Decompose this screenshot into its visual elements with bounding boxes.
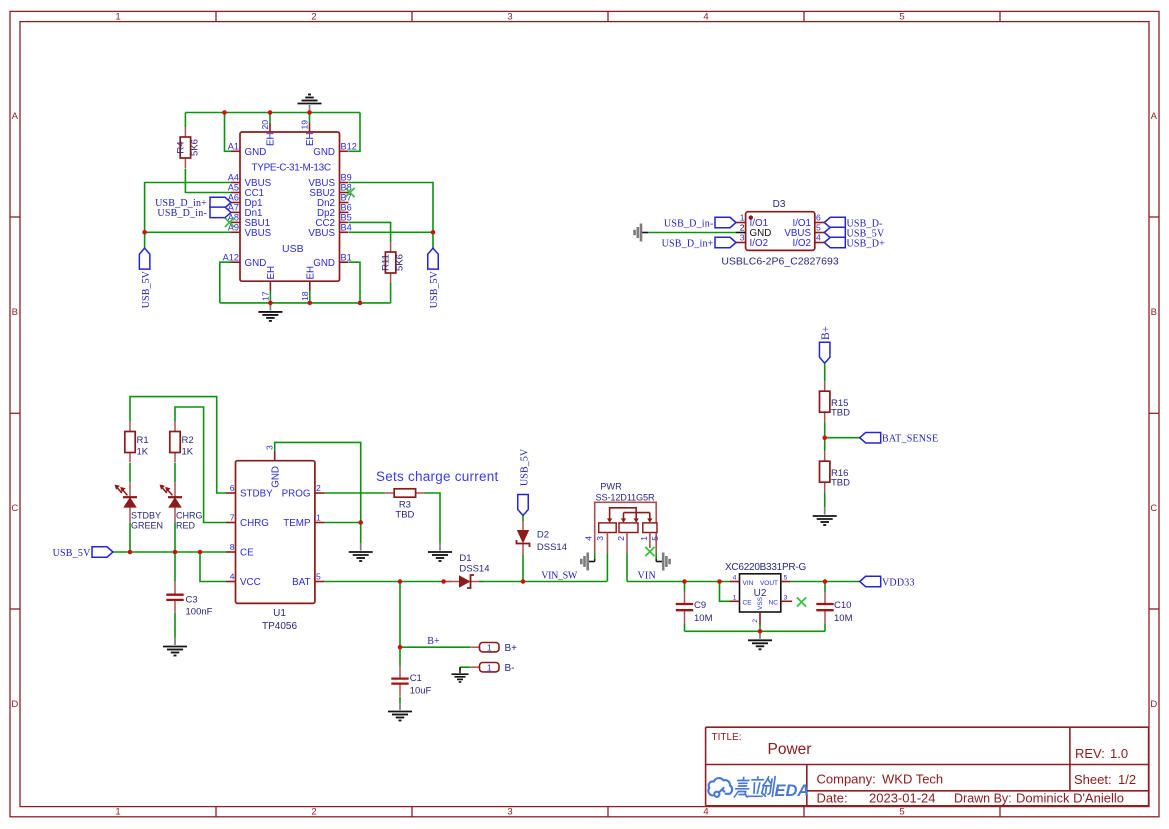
- svg-text:STDBY: STDBY: [131, 511, 161, 521]
- svg-text:10M: 10M: [694, 613, 713, 624]
- svg-text:USB_5V: USB_5V: [519, 448, 530, 486]
- svg-text:CHRG: CHRG: [176, 511, 203, 521]
- svg-text:3: 3: [265, 445, 275, 450]
- svg-text:GND: GND: [270, 466, 281, 488]
- svg-text:I/O2: I/O2: [792, 238, 811, 249]
- svg-text:5: 5: [784, 575, 788, 582]
- svg-text:B+: B+: [820, 326, 832, 340]
- svg-text:D: D: [11, 699, 18, 710]
- svg-text:TP4056: TP4056: [262, 621, 297, 632]
- svg-text:5: 5: [650, 536, 660, 541]
- svg-text:GND: GND: [313, 258, 335, 269]
- svg-text:B1: B1: [341, 252, 352, 262]
- svg-text:USB_D+: USB_D+: [847, 238, 886, 249]
- svg-text:6: 6: [230, 483, 235, 493]
- svg-text:C9: C9: [694, 600, 706, 611]
- svg-text:EH: EH: [305, 132, 316, 146]
- svg-text:2: 2: [616, 536, 626, 541]
- svg-text:C3: C3: [186, 595, 198, 606]
- svg-text:DSS14: DSS14: [459, 564, 489, 575]
- svg-text:C: C: [11, 503, 18, 514]
- svg-text:R4: R4: [176, 141, 187, 153]
- svg-text:4: 4: [733, 575, 737, 582]
- svg-text:4: 4: [584, 536, 594, 541]
- svg-text:USB_5V: USB_5V: [141, 270, 152, 308]
- svg-text:10M: 10M: [834, 613, 853, 624]
- svg-text:10uF: 10uF: [410, 686, 432, 697]
- svg-text:1K: 1K: [137, 447, 149, 458]
- svg-text:B: B: [12, 307, 18, 318]
- svg-text:B12: B12: [341, 142, 357, 152]
- svg-text:20: 20: [260, 120, 270, 130]
- svg-text:GREEN: GREEN: [131, 521, 163, 531]
- svg-text:1K: 1K: [182, 447, 194, 458]
- svg-text:USB_5V: USB_5V: [53, 548, 91, 559]
- svg-text:EDA: EDA: [775, 782, 810, 800]
- svg-text:5: 5: [316, 572, 321, 582]
- svg-text:DSS14: DSS14: [537, 542, 567, 553]
- svg-text:Power: Power: [768, 741, 812, 758]
- svg-text:3: 3: [740, 233, 745, 243]
- svg-text:5K6: 5K6: [395, 254, 406, 271]
- svg-text:CE: CE: [240, 548, 254, 559]
- svg-text:1: 1: [733, 594, 737, 601]
- svg-text:18: 18: [300, 291, 310, 301]
- svg-text:USB_D_in-: USB_D_in-: [157, 208, 207, 219]
- svg-text:3: 3: [507, 807, 512, 818]
- svg-text:GND: GND: [245, 258, 267, 269]
- svg-text:D: D: [1150, 699, 1157, 710]
- svg-text:1: 1: [115, 12, 120, 23]
- svg-text:VIN_SW: VIN_SW: [541, 571, 578, 582]
- svg-text:CE: CE: [743, 600, 753, 607]
- svg-text:B: B: [1151, 307, 1157, 318]
- svg-text:17: 17: [260, 291, 270, 301]
- svg-text:TITLE:: TITLE:: [712, 732, 742, 743]
- svg-text:A4: A4: [228, 173, 239, 183]
- svg-text:1.0: 1.0: [1110, 746, 1128, 761]
- svg-text:VIN: VIN: [638, 571, 656, 582]
- svg-text:TBD: TBD: [831, 408, 850, 419]
- svg-text:7: 7: [230, 513, 235, 523]
- svg-text:5K6: 5K6: [190, 139, 201, 156]
- svg-text:B-: B-: [505, 663, 515, 674]
- svg-text:Drawn By:: Drawn By:: [954, 792, 1012, 806]
- svg-text:EH: EH: [266, 132, 277, 146]
- svg-text:3: 3: [507, 12, 512, 23]
- svg-text:VOUT: VOUT: [760, 580, 778, 587]
- svg-text:C1: C1: [410, 673, 422, 684]
- svg-text:WKD Tech: WKD Tech: [882, 772, 943, 787]
- svg-text:1: 1: [316, 513, 321, 523]
- svg-text:NC: NC: [769, 600, 779, 607]
- svg-text:A: A: [1151, 111, 1158, 122]
- svg-text:VBUS: VBUS: [245, 228, 272, 239]
- svg-text:1: 1: [115, 807, 120, 818]
- svg-text:USB: USB: [282, 243, 304, 255]
- svg-text:6: 6: [816, 213, 821, 223]
- svg-text:4: 4: [703, 12, 708, 23]
- svg-text:8: 8: [230, 542, 235, 552]
- svg-text:CHRG: CHRG: [240, 518, 269, 529]
- svg-text:B4: B4: [341, 223, 352, 233]
- svg-text:A5: A5: [228, 183, 239, 193]
- svg-text:R1: R1: [137, 435, 149, 446]
- svg-text:VSS: VSS: [757, 596, 764, 610]
- svg-text:B6: B6: [341, 203, 352, 213]
- svg-text:3: 3: [595, 536, 605, 541]
- svg-text:Sheet:: Sheet:: [1074, 772, 1112, 787]
- svg-text:Company:: Company:: [817, 772, 876, 787]
- svg-text:2: 2: [316, 483, 321, 493]
- svg-text:1: 1: [487, 662, 492, 672]
- svg-text:1/2: 1/2: [1118, 772, 1136, 787]
- svg-text:PROG: PROG: [282, 489, 311, 500]
- svg-text:GND: GND: [313, 147, 335, 158]
- svg-text:4: 4: [230, 572, 235, 582]
- svg-text:C10: C10: [834, 600, 851, 611]
- svg-text:1: 1: [740, 213, 745, 223]
- svg-text:Sets charge current: Sets charge current: [376, 469, 499, 484]
- svg-text:BAT_SENSE: BAT_SENSE: [882, 434, 938, 445]
- svg-text:1: 1: [487, 642, 492, 652]
- svg-text:TYPE-C-31-M-13C: TYPE-C-31-M-13C: [252, 163, 331, 174]
- svg-text:2: 2: [740, 223, 745, 233]
- svg-text:TBD: TBD: [831, 478, 850, 489]
- svg-text:D3: D3: [773, 199, 786, 210]
- svg-text:PWR: PWR: [600, 482, 622, 492]
- svg-text:VBUS: VBUS: [308, 228, 335, 239]
- svg-text:3: 3: [784, 594, 788, 601]
- svg-text:A12: A12: [223, 252, 239, 262]
- svg-text:GND: GND: [245, 147, 267, 158]
- svg-text:R2: R2: [182, 435, 194, 446]
- svg-text:A1: A1: [228, 142, 239, 152]
- svg-text:VIN: VIN: [743, 580, 754, 587]
- svg-text:XC6220B331PR-G: XC6220B331PR-G: [725, 562, 806, 573]
- svg-text:EH: EH: [266, 266, 277, 280]
- svg-text:R11: R11: [381, 254, 392, 271]
- svg-text:A: A: [12, 111, 19, 122]
- svg-text:U1: U1: [273, 608, 286, 619]
- svg-text:BAT: BAT: [292, 577, 310, 588]
- svg-text:B5: B5: [341, 213, 352, 223]
- svg-text:USB_D_in+: USB_D_in+: [662, 238, 714, 249]
- svg-text:D2: D2: [537, 530, 549, 541]
- svg-text:USBLC6-2P6_C2827693: USBLC6-2P6_C2827693: [721, 256, 838, 268]
- svg-text:I/O2: I/O2: [750, 238, 769, 249]
- svg-text:VDD33: VDD33: [882, 578, 915, 589]
- svg-text:TBD: TBD: [395, 510, 414, 521]
- svg-text:SS-12D11G5R: SS-12D11G5R: [596, 493, 655, 503]
- svg-text:4: 4: [816, 233, 821, 243]
- svg-text:4: 4: [703, 807, 708, 818]
- svg-text:100nF: 100nF: [186, 607, 213, 618]
- svg-text:2: 2: [311, 12, 316, 23]
- svg-text:2023-01-24: 2023-01-24: [869, 791, 936, 806]
- svg-text:2: 2: [311, 807, 316, 818]
- svg-text:STDBY: STDBY: [240, 489, 273, 500]
- svg-text:VCC: VCC: [240, 577, 261, 588]
- svg-text:5: 5: [899, 807, 904, 818]
- svg-text:B9: B9: [341, 173, 352, 183]
- svg-text:5: 5: [899, 12, 904, 23]
- svg-text:D1: D1: [459, 553, 471, 564]
- svg-text:USB_D_in-: USB_D_in-: [664, 218, 714, 229]
- svg-text:REV:: REV:: [1075, 746, 1105, 761]
- svg-text:RED: RED: [176, 521, 196, 531]
- svg-text:EH: EH: [305, 266, 316, 280]
- svg-text:Dominick D'Aniello: Dominick D'Aniello: [1016, 791, 1124, 806]
- svg-text:B7: B7: [341, 193, 352, 203]
- svg-text:C: C: [1150, 503, 1157, 514]
- svg-text:1: 1: [639, 536, 649, 541]
- svg-text:19: 19: [300, 120, 310, 130]
- svg-text:B+: B+: [427, 636, 440, 647]
- svg-text:Date:: Date:: [817, 791, 848, 806]
- svg-text:TEMP: TEMP: [283, 518, 311, 529]
- svg-text:5: 5: [816, 223, 821, 233]
- svg-text:B+: B+: [505, 643, 518, 654]
- svg-text:USB_5V: USB_5V: [429, 270, 440, 308]
- svg-text:2: 2: [752, 619, 759, 623]
